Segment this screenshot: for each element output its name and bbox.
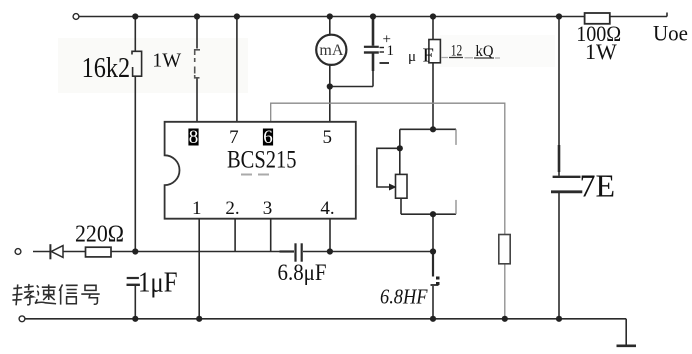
svg-text:8: 8 (189, 127, 199, 148)
svg-text:1μF: 1μF (138, 268, 178, 299)
svg-text:mA: mA (319, 42, 343, 59)
svg-text:2.: 2. (225, 198, 239, 219)
svg-text:F: F (423, 45, 434, 67)
svg-text:1: 1 (192, 198, 202, 219)
svg-text:7E: 7E (580, 168, 616, 204)
svg-text:7: 7 (229, 127, 239, 148)
svg-text:1W: 1W (152, 50, 181, 72)
svg-text:6: 6 (263, 127, 273, 148)
svg-text:3: 3 (263, 198, 273, 219)
svg-text:1W: 1W (585, 39, 617, 64)
svg-text:μ: μ (408, 49, 416, 65)
svg-text:4.: 4. (320, 198, 334, 219)
svg-text:6.8μF: 6.8μF (278, 260, 327, 285)
svg-text:6.8HF: 6.8HF (380, 285, 428, 309)
svg-text:BCS215: BCS215 (227, 147, 297, 174)
svg-text:5: 5 (323, 127, 333, 148)
svg-text:220Ω: 220Ω (75, 222, 124, 248)
svg-text:16k2: 16k2 (82, 53, 131, 84)
svg-text:1: 1 (387, 43, 395, 59)
svg-text:Uoe: Uoe (653, 21, 688, 46)
